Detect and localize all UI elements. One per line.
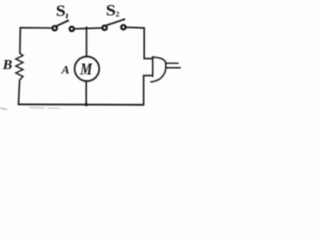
svg-text:M: M	[79, 59, 92, 78]
svg-text:S: S	[56, 3, 66, 20]
svg-text:S: S	[106, 3, 116, 20]
svg-text:2: 2	[116, 10, 120, 19]
svg-text:A: A	[61, 62, 70, 76]
svg-text:B: B	[2, 58, 13, 73]
